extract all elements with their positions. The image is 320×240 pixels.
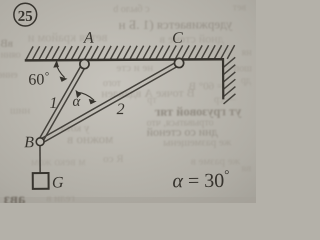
svg-text:ояни: ояни bbox=[0, 50, 21, 61]
svg-text:R со: R со bbox=[103, 153, 124, 165]
svg-text:α = 30°: α = 30° bbox=[172, 167, 229, 192]
svg-text:2: 2 bbox=[116, 101, 124, 118]
svg-text:ение: ение bbox=[0, 70, 18, 81]
svg-text:др: др bbox=[241, 75, 251, 86]
svg-text:шоп: шоп bbox=[233, 63, 252, 74]
svg-text:вет: вет bbox=[232, 2, 246, 13]
svg-text:вя: вя bbox=[241, 162, 251, 174]
weight block G bbox=[33, 173, 49, 189]
rod 1 (B to A) bbox=[38, 63, 87, 143]
svg-text:м веко жом: м веко жом bbox=[30, 156, 86, 168]
svg-text:B: B bbox=[24, 134, 34, 151]
rod 2 (B to C) bbox=[39, 61, 181, 144]
svg-text:с было b: с было b bbox=[113, 4, 149, 15]
wall hatching bbox=[223, 57, 235, 104]
svg-text:α: α bbox=[72, 94, 81, 110]
svg-text:же разме в: же разме в bbox=[191, 155, 242, 167]
cord from B to weight bbox=[39, 146, 41, 173]
svg-text:можно в: можно в bbox=[67, 131, 113, 146]
hinge C bbox=[174, 58, 183, 67]
svg-text:= 60° В: = 60° В bbox=[189, 80, 224, 92]
bleed-through text from reverse page bbox=[0, 2, 253, 208]
svg-text:дной стене в: дной стене в bbox=[159, 31, 224, 45]
alpha angle arc bbox=[76, 91, 95, 104]
svg-text:25: 25 bbox=[18, 9, 33, 25]
svg-text:G: G bbox=[52, 174, 64, 191]
svg-text:1: 1 bbox=[49, 95, 57, 112]
svg-text:вется крайом и: вется крайом и bbox=[27, 30, 107, 44]
ceiling line bbox=[25, 59, 223, 60]
svg-text:вВ: вВ bbox=[0, 38, 13, 50]
problem number 25 badge bbox=[14, 3, 37, 26]
svg-text:A: A bbox=[83, 30, 94, 47]
hinge B bbox=[36, 138, 44, 146]
wall line bbox=[222, 58, 224, 99]
ceiling hatching bbox=[26, 45, 235, 60]
svg-text:ниш: ниш bbox=[9, 105, 30, 117]
svg-text:гели в: гели в bbox=[46, 192, 75, 203]
svg-text:авз: авз bbox=[4, 192, 26, 203]
60 degree angle arc bbox=[54, 61, 66, 81]
svg-text:же размещены: же размещены bbox=[163, 136, 233, 148]
svg-text:C: C bbox=[172, 30, 183, 47]
hinge A bbox=[80, 59, 89, 68]
svg-text:не и сте: не и сте bbox=[116, 62, 153, 74]
svg-text:ня: ня bbox=[241, 47, 251, 58]
